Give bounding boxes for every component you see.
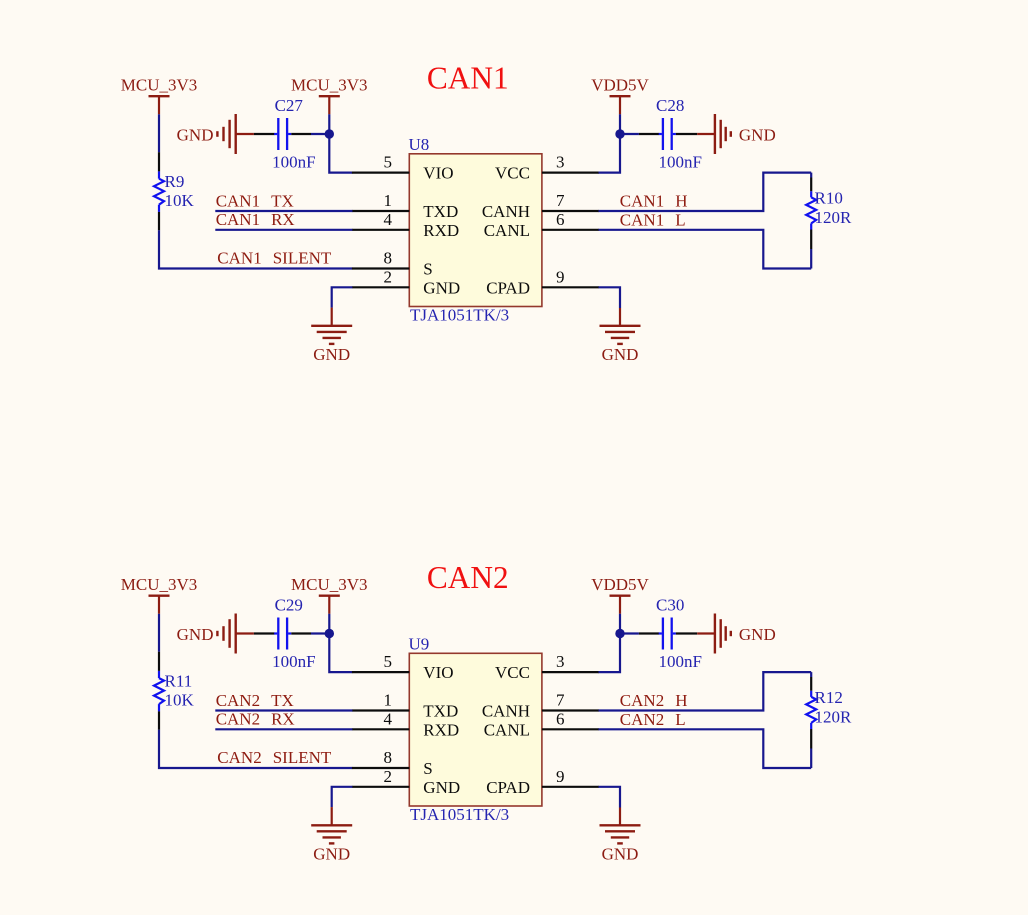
svg-text:CAN2L: CAN2L bbox=[620, 710, 686, 729]
svg-text:3: 3 bbox=[556, 652, 565, 671]
svg-text:1: 1 bbox=[384, 191, 393, 210]
svg-text:2: 2 bbox=[384, 267, 393, 286]
svg-text:CANL: CANL bbox=[484, 720, 530, 739]
svg-text:MCU_3V3: MCU_3V3 bbox=[291, 76, 368, 95]
svg-text:VIO: VIO bbox=[423, 164, 453, 183]
svg-text:TXD: TXD bbox=[423, 702, 458, 721]
svg-text:5: 5 bbox=[384, 652, 393, 671]
svg-text:VDD5V: VDD5V bbox=[591, 76, 649, 95]
svg-text:7: 7 bbox=[556, 691, 565, 710]
svg-text:RXD: RXD bbox=[423, 221, 459, 240]
svg-text:1: 1 bbox=[384, 691, 393, 710]
svg-text:CAN2RX: CAN2RX bbox=[216, 710, 295, 729]
svg-text:GND: GND bbox=[313, 844, 350, 863]
svg-text:6: 6 bbox=[556, 210, 565, 229]
svg-text:S: S bbox=[423, 260, 432, 279]
svg-text:VDD5V: VDD5V bbox=[591, 575, 649, 594]
svg-text:5: 5 bbox=[384, 153, 393, 172]
svg-text:CAN1L: CAN1L bbox=[620, 210, 686, 229]
svg-text:C28: C28 bbox=[656, 96, 684, 115]
svg-text:RXD: RXD bbox=[423, 720, 459, 739]
svg-text:GND: GND bbox=[739, 625, 776, 644]
svg-text:GND: GND bbox=[739, 126, 776, 145]
svg-text:CANH: CANH bbox=[482, 702, 530, 721]
svg-text:7: 7 bbox=[556, 191, 565, 210]
svg-text:100nF: 100nF bbox=[272, 152, 315, 171]
svg-text:MCU_3V3: MCU_3V3 bbox=[121, 575, 198, 594]
svg-text:10K: 10K bbox=[165, 690, 195, 709]
svg-text:C29: C29 bbox=[275, 595, 303, 614]
svg-text:2: 2 bbox=[384, 767, 393, 786]
svg-text:R9: R9 bbox=[165, 172, 185, 191]
svg-text:R11: R11 bbox=[165, 672, 193, 691]
svg-text:GND: GND bbox=[177, 625, 214, 644]
svg-text:CAN1SILENT: CAN1SILENT bbox=[217, 248, 332, 267]
svg-text:U8: U8 bbox=[409, 135, 430, 154]
svg-text:10K: 10K bbox=[165, 191, 195, 210]
svg-text:CAN1RX: CAN1RX bbox=[216, 210, 295, 229]
svg-text:CAN2H: CAN2H bbox=[620, 691, 688, 710]
svg-text:CAN2: CAN2 bbox=[427, 560, 509, 595]
svg-text:C30: C30 bbox=[656, 595, 684, 614]
svg-text:120R: 120R bbox=[815, 208, 853, 227]
svg-text:VIO: VIO bbox=[423, 663, 453, 682]
svg-text:TJA1051TK/3: TJA1051TK/3 bbox=[410, 805, 509, 824]
svg-text:9: 9 bbox=[556, 267, 565, 286]
svg-text:R10: R10 bbox=[815, 189, 843, 208]
svg-text:CAN2TX: CAN2TX bbox=[216, 691, 294, 710]
svg-text:8: 8 bbox=[384, 748, 393, 767]
svg-text:GND: GND bbox=[602, 345, 639, 364]
svg-text:CANL: CANL bbox=[484, 221, 530, 240]
svg-text:VCC: VCC bbox=[495, 663, 530, 682]
svg-text:S: S bbox=[423, 759, 432, 778]
svg-text:GND: GND bbox=[177, 126, 214, 145]
svg-text:CPAD: CPAD bbox=[486, 278, 530, 297]
svg-text:TXD: TXD bbox=[423, 202, 458, 221]
svg-text:GND: GND bbox=[313, 345, 350, 364]
svg-text:CPAD: CPAD bbox=[486, 778, 530, 797]
svg-text:100nF: 100nF bbox=[272, 652, 315, 671]
svg-text:GND: GND bbox=[602, 844, 639, 863]
svg-text:R12: R12 bbox=[815, 688, 843, 707]
svg-text:C27: C27 bbox=[275, 96, 304, 115]
svg-text:TJA1051TK/3: TJA1051TK/3 bbox=[410, 306, 509, 325]
svg-text:4: 4 bbox=[384, 210, 393, 229]
svg-text:CAN2SILENT: CAN2SILENT bbox=[217, 748, 332, 767]
svg-text:8: 8 bbox=[384, 249, 393, 268]
svg-text:CAN1TX: CAN1TX bbox=[216, 191, 294, 210]
svg-text:GND: GND bbox=[423, 778, 460, 797]
svg-text:U9: U9 bbox=[409, 634, 430, 653]
svg-text:100nF: 100nF bbox=[659, 152, 702, 171]
svg-text:6: 6 bbox=[556, 709, 565, 728]
svg-text:3: 3 bbox=[556, 153, 565, 172]
svg-text:MCU_3V3: MCU_3V3 bbox=[121, 76, 198, 95]
svg-text:VCC: VCC bbox=[495, 164, 530, 183]
svg-text:120R: 120R bbox=[815, 708, 853, 727]
svg-text:GND: GND bbox=[423, 278, 460, 297]
svg-text:CAN1H: CAN1H bbox=[620, 192, 688, 211]
svg-text:CANH: CANH bbox=[482, 202, 530, 221]
svg-text:CAN1: CAN1 bbox=[427, 61, 509, 96]
svg-text:100nF: 100nF bbox=[659, 652, 702, 671]
svg-text:4: 4 bbox=[384, 709, 393, 728]
svg-text:MCU_3V3: MCU_3V3 bbox=[291, 575, 368, 594]
svg-text:9: 9 bbox=[556, 767, 565, 786]
